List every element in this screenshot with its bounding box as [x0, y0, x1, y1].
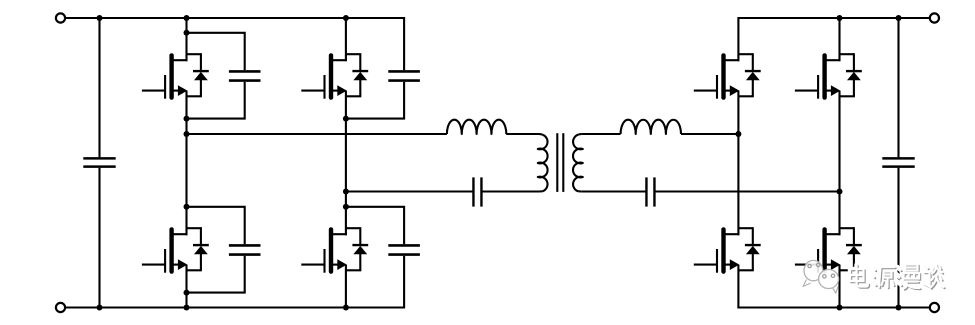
transformer T1 core	[557, 133, 563, 192]
terminal: input negative	[56, 303, 65, 312]
capacitor Cin (input bus capacitor)	[83, 17, 115, 309]
junction	[184, 204, 190, 210]
junction	[184, 131, 190, 137]
wire: inductor to transformer primary	[506, 133, 539, 135]
wire: leg B bottom (Q4 source to negative rail)	[345, 265, 347, 308]
junction	[837, 305, 843, 311]
transistor Q2	[301, 53, 347, 99]
terminal: output positive	[930, 13, 939, 22]
junction	[97, 305, 103, 311]
wire: transformer secondary to inductor	[582, 133, 621, 135]
wire: node A to series inductor	[187, 133, 447, 135]
junction	[343, 116, 349, 122]
series capacitor Cr2	[646, 177, 654, 206]
transistor Q8	[795, 227, 841, 273]
wire: leg D vertical (Q6 source to Q8 drain)	[838, 91, 840, 236]
body diode D1	[187, 53, 209, 96]
wire: leg A vertical (Q1 source to Q3 drain)	[185, 91, 187, 236]
wire: leg A drain (Q1)	[185, 18, 187, 61]
wire: leg B vertical (Q2 source to Q4 drain)	[345, 91, 347, 236]
junction	[184, 30, 190, 36]
transistor Q3	[142, 227, 188, 273]
junction	[343, 204, 349, 210]
snubber capacitor C3	[187, 207, 261, 293]
transistor Q4	[301, 227, 347, 273]
body diode D4	[346, 227, 368, 270]
body diode D7	[738, 227, 760, 270]
body diode D3	[187, 227, 209, 270]
terminal: input positive	[56, 13, 65, 22]
wire: series capacitor to node D	[655, 190, 840, 192]
wire: leg C bottom (Q7 source to negative rail)	[737, 265, 739, 309]
body diode D8	[840, 227, 862, 270]
junction	[343, 15, 349, 21]
junction	[837, 189, 843, 195]
junction	[184, 305, 190, 311]
wire: negative output rail	[738, 306, 934, 308]
capacitor Cout (output bus capacitor)	[882, 17, 914, 309]
junction	[896, 305, 902, 311]
wire: node B to series capacitor	[346, 190, 474, 192]
junction	[184, 116, 190, 122]
watermark text shadow (gray CJK glyph strokes)	[851, 266, 945, 290]
wire: leg C drain (Q5)	[737, 17, 739, 61]
snubber capacitor C4	[346, 207, 420, 309]
junction	[184, 15, 190, 21]
terminal: output negative	[930, 303, 939, 312]
watermark text halo	[850, 265, 944, 289]
transformer T1 secondary winding	[573, 134, 583, 192]
junction	[97, 15, 103, 21]
wire: leg A bottom (Q3 source to negative rail)	[185, 265, 187, 308]
junction	[837, 15, 843, 21]
watermark logo (chat bubbles)	[803, 260, 839, 293]
junction	[896, 15, 902, 21]
body diode D5	[738, 53, 760, 96]
junction	[735, 131, 741, 137]
transformer T1 primary winding	[538, 134, 548, 192]
wire: series capacitor to transformer primary	[481, 190, 539, 192]
snubber capacitor C1	[187, 33, 261, 119]
wire: inductor to node C	[681, 133, 738, 135]
transistor Q7	[694, 227, 740, 273]
transistor Q5	[694, 53, 740, 99]
transistor Q6	[795, 53, 841, 99]
inductor Lr	[447, 120, 506, 134]
wire: positive output rail	[738, 17, 934, 19]
wire: leg C vertical (Q5 source to Q7 drain)	[737, 91, 739, 236]
snubber capacitor C2	[346, 17, 420, 119]
junction	[184, 290, 190, 296]
junction	[343, 189, 349, 195]
transistor Q1	[142, 53, 188, 99]
watermark text white face	[850, 265, 944, 289]
wire: transformer secondary to series capacitor	[582, 190, 647, 192]
inductor Lr2	[621, 120, 681, 134]
body diode D2	[346, 53, 368, 96]
series capacitor Cr1	[473, 177, 481, 206]
wire: positive input rail	[61, 17, 405, 19]
wire: leg D bottom (Q8 source to negative rail)	[838, 265, 840, 308]
wire: leg D drain (Q6)	[838, 18, 840, 61]
wire: negative input rail	[61, 306, 405, 308]
junction	[343, 305, 349, 311]
body diode D6	[840, 53, 862, 96]
wire: leg B drain (Q2)	[345, 18, 347, 61]
